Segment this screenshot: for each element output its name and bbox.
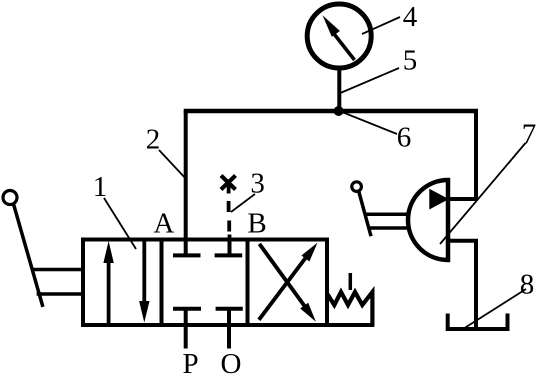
wire: gauge stem — [337, 66, 341, 111]
leader line for label 4 — [362, 17, 400, 34]
valve 1: right cell crossed arrow up-right — [259, 243, 318, 320]
vent plug 3: dashed line to port B — [227, 184, 232, 242]
label 8 — [520, 269, 535, 301]
wire: top horizontal manifold line — [184, 109, 478, 114]
valve 7: flow triangle — [429, 189, 449, 210]
valve 7: fork upper line — [365, 212, 409, 216]
svg-text:8: 8 — [520, 269, 535, 301]
valve 1: port P external stub — [184, 325, 188, 349]
svg-text:B: B — [247, 208, 266, 240]
valve 7: lever knob circle — [352, 182, 362, 192]
vent plug 3: X symbol — [221, 176, 236, 190]
port label A — [153, 208, 174, 240]
svg-text:1: 1 — [93, 171, 108, 203]
wire: valve bottom extension under spring — [327, 323, 374, 327]
valve 1: left cell up arrow — [103, 241, 113, 323]
valve 1: middle cell blocked port A (stub+T bar) — [173, 240, 201, 256]
valve 7: fork lower line — [369, 226, 408, 230]
leader line for label 5 — [338, 68, 399, 94]
tank 8 — [448, 314, 508, 330]
leader line for label 7 — [440, 143, 526, 244]
valve 1: left cell down arrow — [139, 242, 149, 323]
svg-text:O: O — [221, 348, 242, 375]
port label B — [247, 208, 266, 240]
valve 1: directional valve outer body — [83, 240, 327, 326]
valve 1: return spring zigzag — [327, 292, 372, 325]
svg-text:7: 7 — [522, 119, 536, 151]
svg-text:4: 4 — [403, 1, 418, 33]
leader line for label 3 — [231, 194, 255, 212]
pressure gauge 4: needle — [323, 15, 355, 60]
wire: valve 7 inlet stub — [448, 197, 478, 201]
valve 1: manual lever knob circle — [3, 191, 17, 205]
svg-text:P: P — [183, 348, 199, 375]
valve 1: right cell crossed arrow down-right — [259, 244, 316, 322]
port label O — [221, 348, 242, 375]
valve 7: semicircular body — [408, 180, 448, 260]
wire: right vertical upper (manifold to valve 7 inlet) — [474, 109, 478, 199]
label 6 — [397, 122, 412, 154]
label 2 — [146, 124, 161, 156]
leader line for label 6 — [342, 112, 397, 134]
wire: valve 7 outlet stub — [448, 239, 478, 243]
valve 1: middle cell blocked port B (stub+T bar) — [215, 240, 243, 256]
label 3 — [250, 168, 265, 200]
valve 1: lever link upper line — [32, 268, 83, 272]
leader line for label 2 — [159, 150, 187, 180]
valve 1: lever link lower line — [37, 292, 83, 296]
valve 1: middle cell blocked port O (stub+T bar) — [216, 309, 243, 325]
wire: right vertical lower (valve 7 to tank 8) — [474, 240, 478, 329]
label 4 — [403, 1, 418, 33]
svg-text:6: 6 — [397, 122, 412, 154]
svg-text:5: 5 — [403, 45, 418, 77]
label 1 — [93, 171, 108, 203]
valve 1: divider between left and middle cell — [160, 240, 164, 326]
svg-text:2: 2 — [146, 124, 161, 156]
node 6: junction dot — [334, 106, 344, 116]
valve 1: middle cell blocked port P (stub+T bar) — [173, 309, 201, 325]
valve 1: manual lever arm — [14, 204, 43, 307]
valve 1: divider between middle and right cell — [246, 240, 250, 326]
label 7 — [522, 119, 536, 151]
leader line for label 8 — [463, 289, 526, 329]
svg-text:A: A — [153, 208, 174, 240]
valve 1: port O external stub — [227, 325, 231, 349]
pressure gauge 4: body circle — [307, 4, 371, 68]
valve 7: lever arm — [359, 192, 371, 237]
valve 1: spring detent tick — [349, 273, 353, 290]
leader line for label 1 — [104, 198, 136, 249]
label 5 — [403, 45, 418, 77]
svg-text:3: 3 — [250, 168, 265, 200]
port label P — [183, 348, 199, 375]
wire: line 2 vertical from valve port A up to manifold — [184, 111, 188, 241]
